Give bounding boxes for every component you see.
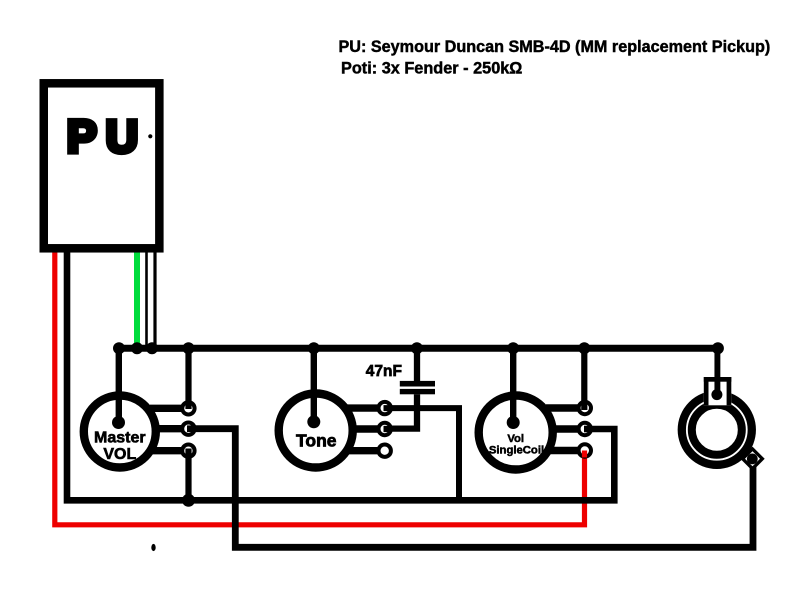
svg-text:Vol: Vol bbox=[507, 433, 524, 445]
wire: bus to Tone case bbox=[311, 348, 317, 400]
wire: ground path PU black lead down, along bottom bus, riser up to Vol SingleCoil middle lug bbox=[67, 248, 614, 500]
output jack tip lug (diamond) bbox=[740, 447, 764, 471]
junction: ground bus / Master VOL bottom lug bbox=[182, 494, 195, 507]
junction: bus / output jack bbox=[712, 342, 724, 354]
wire: Master VOL bottom lug to ground bus bbox=[185, 451, 191, 501]
wire: thin black lead 1 from PU to bus junction bbox=[145, 248, 148, 346]
junction: bus / capacitor bbox=[411, 342, 423, 354]
output jack bbox=[682, 377, 752, 465]
stray ink mark bbox=[151, 544, 155, 551]
junction: bus / Master VOL case bbox=[113, 342, 125, 354]
svg-text:47nF: 47nF bbox=[366, 363, 402, 380]
wire: bus to Master VOL top lug bbox=[185, 348, 191, 408]
svg-text:SingleCoil: SingleCoil bbox=[489, 444, 544, 456]
svg-text:Tone: Tone bbox=[296, 431, 337, 451]
pickup PU bbox=[44, 83, 160, 248]
wire: main top bus bbox=[119, 345, 718, 352]
wire: red hot lead from PU down, across bottom, up to Vol SingleCoil bottom lug bbox=[55, 248, 585, 525]
wire: bus to Vol SingleCoil case bbox=[510, 348, 516, 400]
svg-text:PU: PU bbox=[67, 111, 147, 162]
capacitor 47nF bbox=[389, 381, 435, 429]
potentiometer Tone bbox=[279, 392, 392, 468]
wire: bus to capacitor bbox=[414, 348, 420, 381]
svg-text:VOL: VOL bbox=[103, 446, 136, 463]
junction: bus / Master VOL top lug bbox=[183, 342, 195, 354]
junction: bus / Vol SingleCoil case bbox=[507, 342, 519, 354]
wire: green lead from PU down to bus junction bbox=[134, 248, 140, 347]
wire: Tone top lug to ground bus bbox=[391, 408, 459, 500]
wire: bus to Vol SingleCoil top lug bbox=[581, 348, 587, 408]
potentiometer Master VOL bbox=[84, 393, 196, 468]
wire: bus to output jack tab bbox=[714, 348, 720, 393]
junction: bus / green lead bbox=[131, 342, 143, 354]
wire: thin black lead 2 from PU to bus junction bbox=[153, 248, 156, 347]
svg-text:Master: Master bbox=[94, 429, 146, 446]
svg-text:PU: Seymour Duncan SMB-4D (MM: PU: Seymour Duncan SMB-4D (MM replacemen… bbox=[339, 38, 771, 56]
wire: bus to Master VOL case bbox=[116, 348, 122, 400]
junction: bus / thin leads bbox=[146, 342, 158, 354]
junction: bus / Vol SingleCoil top lug bbox=[578, 342, 590, 354]
wire: Master VOL middle lug to output jack tip lug (right, down, right, up) bbox=[194, 429, 753, 548]
potentiometer Vol SingleCoil bbox=[479, 394, 592, 470]
junction: bus / Tone case bbox=[308, 342, 320, 354]
svg-text:Poti: 3x Fender - 250kΩ: Poti: 3x Fender - 250kΩ bbox=[341, 59, 522, 77]
